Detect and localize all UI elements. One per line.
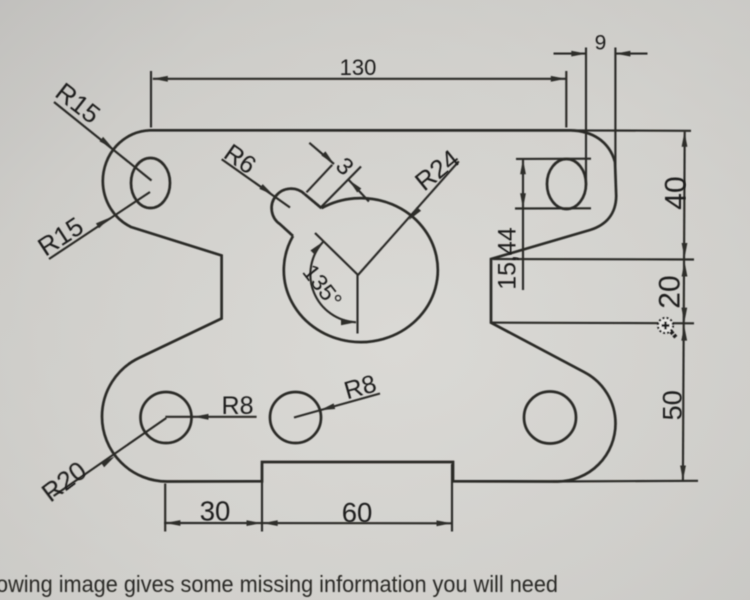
dim 40 arrow bottom — [682, 243, 688, 258]
dim 130 extension left — [150, 71, 152, 128]
dim 3 line lower segment — [349, 180, 369, 202]
radial ray up-left (135 deg vertex) — [315, 233, 358, 275]
svg-text:R15: R15 — [50, 76, 106, 129]
hole bottom-left R8 — [141, 392, 192, 443]
hole bottom-right — [524, 392, 576, 444]
svg-text:30: 30 — [200, 495, 231, 526]
magnifier cursor — [658, 318, 677, 338]
leader R20 — [54, 418, 167, 496]
leader R20 arrow — [101, 456, 115, 467]
bottom edge extension to 50 dim — [553, 480, 698, 483]
dim 9 arrow right — [615, 51, 630, 57]
dim 30 arrow left — [165, 520, 180, 526]
dim 15,44 arrow top — [520, 159, 526, 174]
dim 130 arrow left — [153, 76, 168, 82]
svg-text:R24: R24 — [409, 143, 465, 196]
135 deg arrow lower — [341, 319, 356, 325]
dim 130 extension right — [565, 71, 567, 128]
dim 40 arrow top — [682, 132, 688, 147]
svg-text:40: 40 — [660, 176, 693, 209]
center keyhole: bulb R6 and joins — [272, 189, 305, 236]
dim 9 extension right — [614, 48, 616, 175]
svg-text:R8: R8 — [222, 392, 254, 420]
center keyhole: big circle R24 — [284, 198, 438, 342]
leader R15 upper arrow — [99, 137, 113, 149]
135 deg arrow upper — [310, 242, 323, 255]
dim 3 line upper segment — [309, 143, 334, 164]
leader R15 upper — [54, 102, 152, 181]
dim 15,44 extension bottom — [515, 207, 591, 209]
leader R8 right — [294, 394, 380, 418]
dim 15,44 extension top — [516, 158, 591, 160]
dim 30/60 extension x=452 — [451, 464, 453, 532]
dim 30/60 extension x=262 — [261, 464, 263, 532]
dim 20 arrow bottom — [681, 308, 687, 323]
svg-text:R8: R8 — [341, 370, 379, 406]
dim 130 line — [153, 78, 566, 80]
leader R15 lower — [49, 192, 150, 259]
svg-text:15,44: 15,44 — [493, 227, 521, 290]
dim 3 extension A — [307, 165, 333, 193]
leader R8 right arrow — [320, 403, 335, 410]
dim 9 line right segment — [615, 53, 647, 55]
svg-text:R6: R6 — [219, 139, 261, 180]
dim 50 arrow top — [681, 326, 687, 341]
leader R6 — [222, 159, 290, 207]
dim 15,44 arrow bottom — [520, 193, 526, 208]
radial ray down (135 deg vertex) — [356, 275, 358, 334]
svg-text:owing image gives some missing: owing image gives some missing informati… — [0, 571, 558, 597]
135 deg dimension arc — [310, 242, 356, 322]
svg-text:135°: 135° — [298, 259, 348, 312]
dim 130 arrow right — [551, 76, 566, 82]
svg-text:50: 50 — [658, 390, 688, 420]
top edge extension line to right dims — [571, 129, 691, 132]
dim 9 line left segment — [554, 53, 587, 55]
dim 9 arrow left — [571, 51, 586, 57]
leader R6 arrow — [259, 184, 273, 195]
dim 30/60 line — [164, 522, 453, 524]
svg-text:60: 60 — [342, 497, 373, 528]
dim 50 arrow bottom — [680, 466, 686, 481]
dim 60 arrow left — [263, 520, 278, 526]
leader R8 left — [165, 416, 256, 418]
dim 60 arrow right — [437, 520, 452, 526]
dim 3 extension B — [320, 167, 361, 208]
extension line y=259 (40/20 boundary) — [493, 258, 694, 261]
bottom caption — [0, 571, 558, 597]
leader R15 lower arrow — [96, 218, 110, 229]
dim 3 arrow upper — [321, 151, 334, 164]
leader R8 left arrow — [194, 414, 209, 420]
vertical dimension line 40/20/50 — [683, 132, 685, 481]
dim 30/60 extension x=165 — [164, 484, 166, 532]
leader R24 arrow — [409, 207, 421, 220]
dim 3 arrow lower — [349, 180, 362, 193]
svg-text:R20: R20 — [36, 455, 92, 508]
hole top-left (R15 lobe hole) — [131, 158, 170, 208]
hole top-right (slot 15.44) — [547, 159, 586, 209]
keyhole slot upper wall — [305, 194, 322, 208]
svg-text:3: 3 — [330, 152, 359, 181]
dim 20 arrow top — [682, 262, 688, 277]
extension line y=323 (20/50 boundary) — [491, 322, 694, 325]
dim 15,44 line and text underline — [522, 159, 524, 290]
dimension texts — [32, 31, 692, 527]
dim 9 extension left — [585, 48, 587, 187]
part outline — [102, 130, 616, 481]
svg-text:9: 9 — [595, 31, 607, 54]
svg-text:130: 130 — [340, 55, 377, 80]
svg-text:20: 20 — [654, 275, 687, 308]
hole bottom-middle R8 — [270, 392, 321, 443]
dim 30 arrow right — [247, 520, 262, 526]
svg-text:R15: R15 — [32, 211, 88, 262]
leader R24 — [358, 161, 459, 275]
